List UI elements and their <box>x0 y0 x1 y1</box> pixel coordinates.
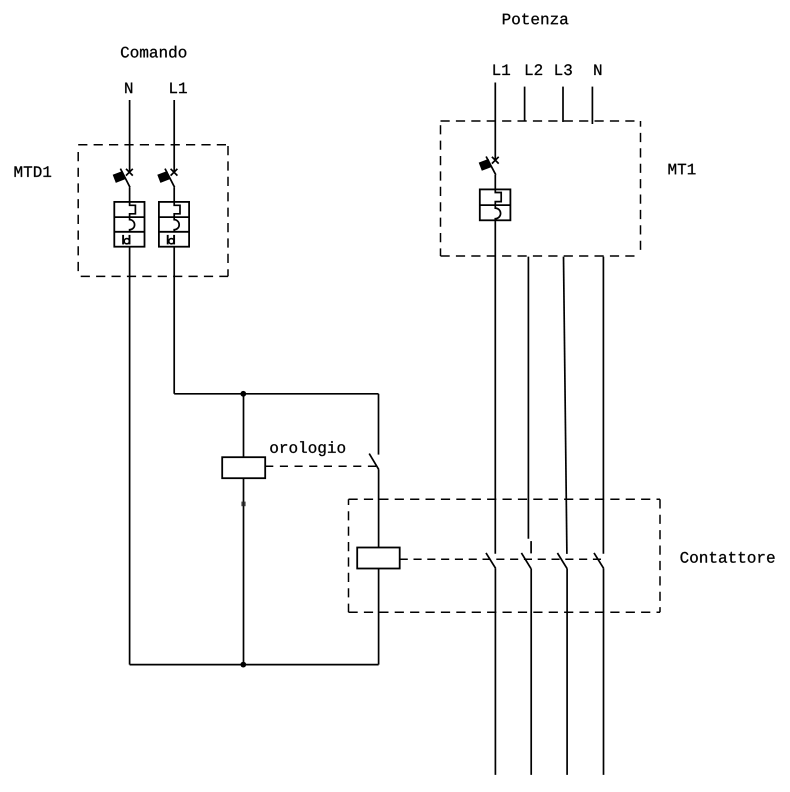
label orologio <box>270 441 345 456</box>
clock coil (orologio) <box>222 457 265 478</box>
label L3 (right) <box>556 64 572 75</box>
wire bottom horizontal rail <box>130 664 379 666</box>
wire L3 below MT1 box <box>564 257 567 554</box>
breaker Q2 lever <box>165 169 175 188</box>
breaker Q1 thermal and magnetic elements <box>130 202 136 232</box>
breaker Q2 contact X <box>171 169 178 176</box>
wire N entry stub (right) <box>591 87 593 124</box>
breaker Q2 actuator <box>157 171 170 183</box>
wire Q2 lever to box <box>173 187 175 202</box>
wire L2 entry stub <box>524 87 526 122</box>
breaker Q1 Id label <box>123 235 129 245</box>
label L2 (right) <box>526 64 542 75</box>
breaker Q1 contact X <box>126 169 133 176</box>
wire contactor coil to bottom rail <box>378 568 380 664</box>
breaker Q2 thermal and magnetic elements <box>174 202 180 232</box>
breaker Q1 actuator <box>113 171 126 183</box>
contactor contact 1 blade (L1) <box>486 553 496 568</box>
breaker Q2 body <box>159 202 189 247</box>
breaker Q3 actuator <box>479 159 492 171</box>
wire L2 below contact <box>530 568 532 775</box>
contactor contact 2 blade (L2) <box>521 553 531 569</box>
mechanical link contactor (dashed) <box>400 558 601 560</box>
wire top horizontal rail <box>174 393 378 395</box>
wire clock coil to bottom rail <box>243 478 245 664</box>
contactor coil KM1 <box>357 548 400 569</box>
mechanical link orologio (dashed) <box>265 465 376 467</box>
wire L2 short stub above contact <box>530 541 532 553</box>
wire L1 right below contact <box>494 568 496 775</box>
junction dot A <box>240 391 246 397</box>
junction dot B <box>240 662 246 668</box>
breaker Q3 thermal and magnetic elements <box>495 189 501 220</box>
label Comando <box>121 46 186 58</box>
clock contact blade <box>369 454 379 470</box>
wire N below Q1 <box>129 247 131 665</box>
label L1 (right) <box>494 65 511 76</box>
label Contattore <box>681 552 775 563</box>
label N (right) <box>594 65 601 76</box>
breaker Q2 Id label <box>168 235 174 245</box>
wire Q1 lever to box <box>129 187 131 202</box>
label L1 (left) <box>170 83 187 94</box>
contactor contact 3 blade (L3) <box>557 553 567 568</box>
wire N top (left) <box>129 100 131 172</box>
breaker Q3 body <box>480 189 511 220</box>
wire N below MT1 box (right) <box>602 257 604 554</box>
wire rail corner down to clock contact <box>378 394 380 455</box>
label Potenza <box>503 14 568 25</box>
label MT1 <box>669 164 696 175</box>
wire Q3 lever to box <box>494 175 496 190</box>
wire junction A to clock coil <box>243 394 245 457</box>
wire L1 below Q2 <box>173 247 175 394</box>
wire N below contact (right) <box>603 568 605 775</box>
breaker Q1 lever <box>120 169 130 188</box>
wire clock contact to contactor coil <box>378 469 380 547</box>
wire L1 right: breaker to contactor contact <box>494 220 496 553</box>
breaker Q3 contact X <box>492 157 499 164</box>
wire L3 below contact <box>566 568 568 775</box>
breaker Q1 body <box>114 202 144 247</box>
dashed enclosure MTD1 <box>78 145 228 277</box>
node nub on clock coil wire <box>241 502 245 507</box>
label MTD1 <box>15 166 52 177</box>
wire L1 (right) top <box>494 83 496 161</box>
breaker Q3 lever <box>486 157 496 175</box>
wire L3 entry stub <box>562 87 564 122</box>
dashed enclosure Contattore <box>349 499 661 612</box>
contactor contact 4 blade (N) <box>594 553 604 568</box>
label N (left) <box>125 83 132 94</box>
dashed enclosure MT1 <box>441 121 641 256</box>
wire L1 top (left) <box>173 100 175 172</box>
wire L2 below MT1 box <box>527 257 529 539</box>
